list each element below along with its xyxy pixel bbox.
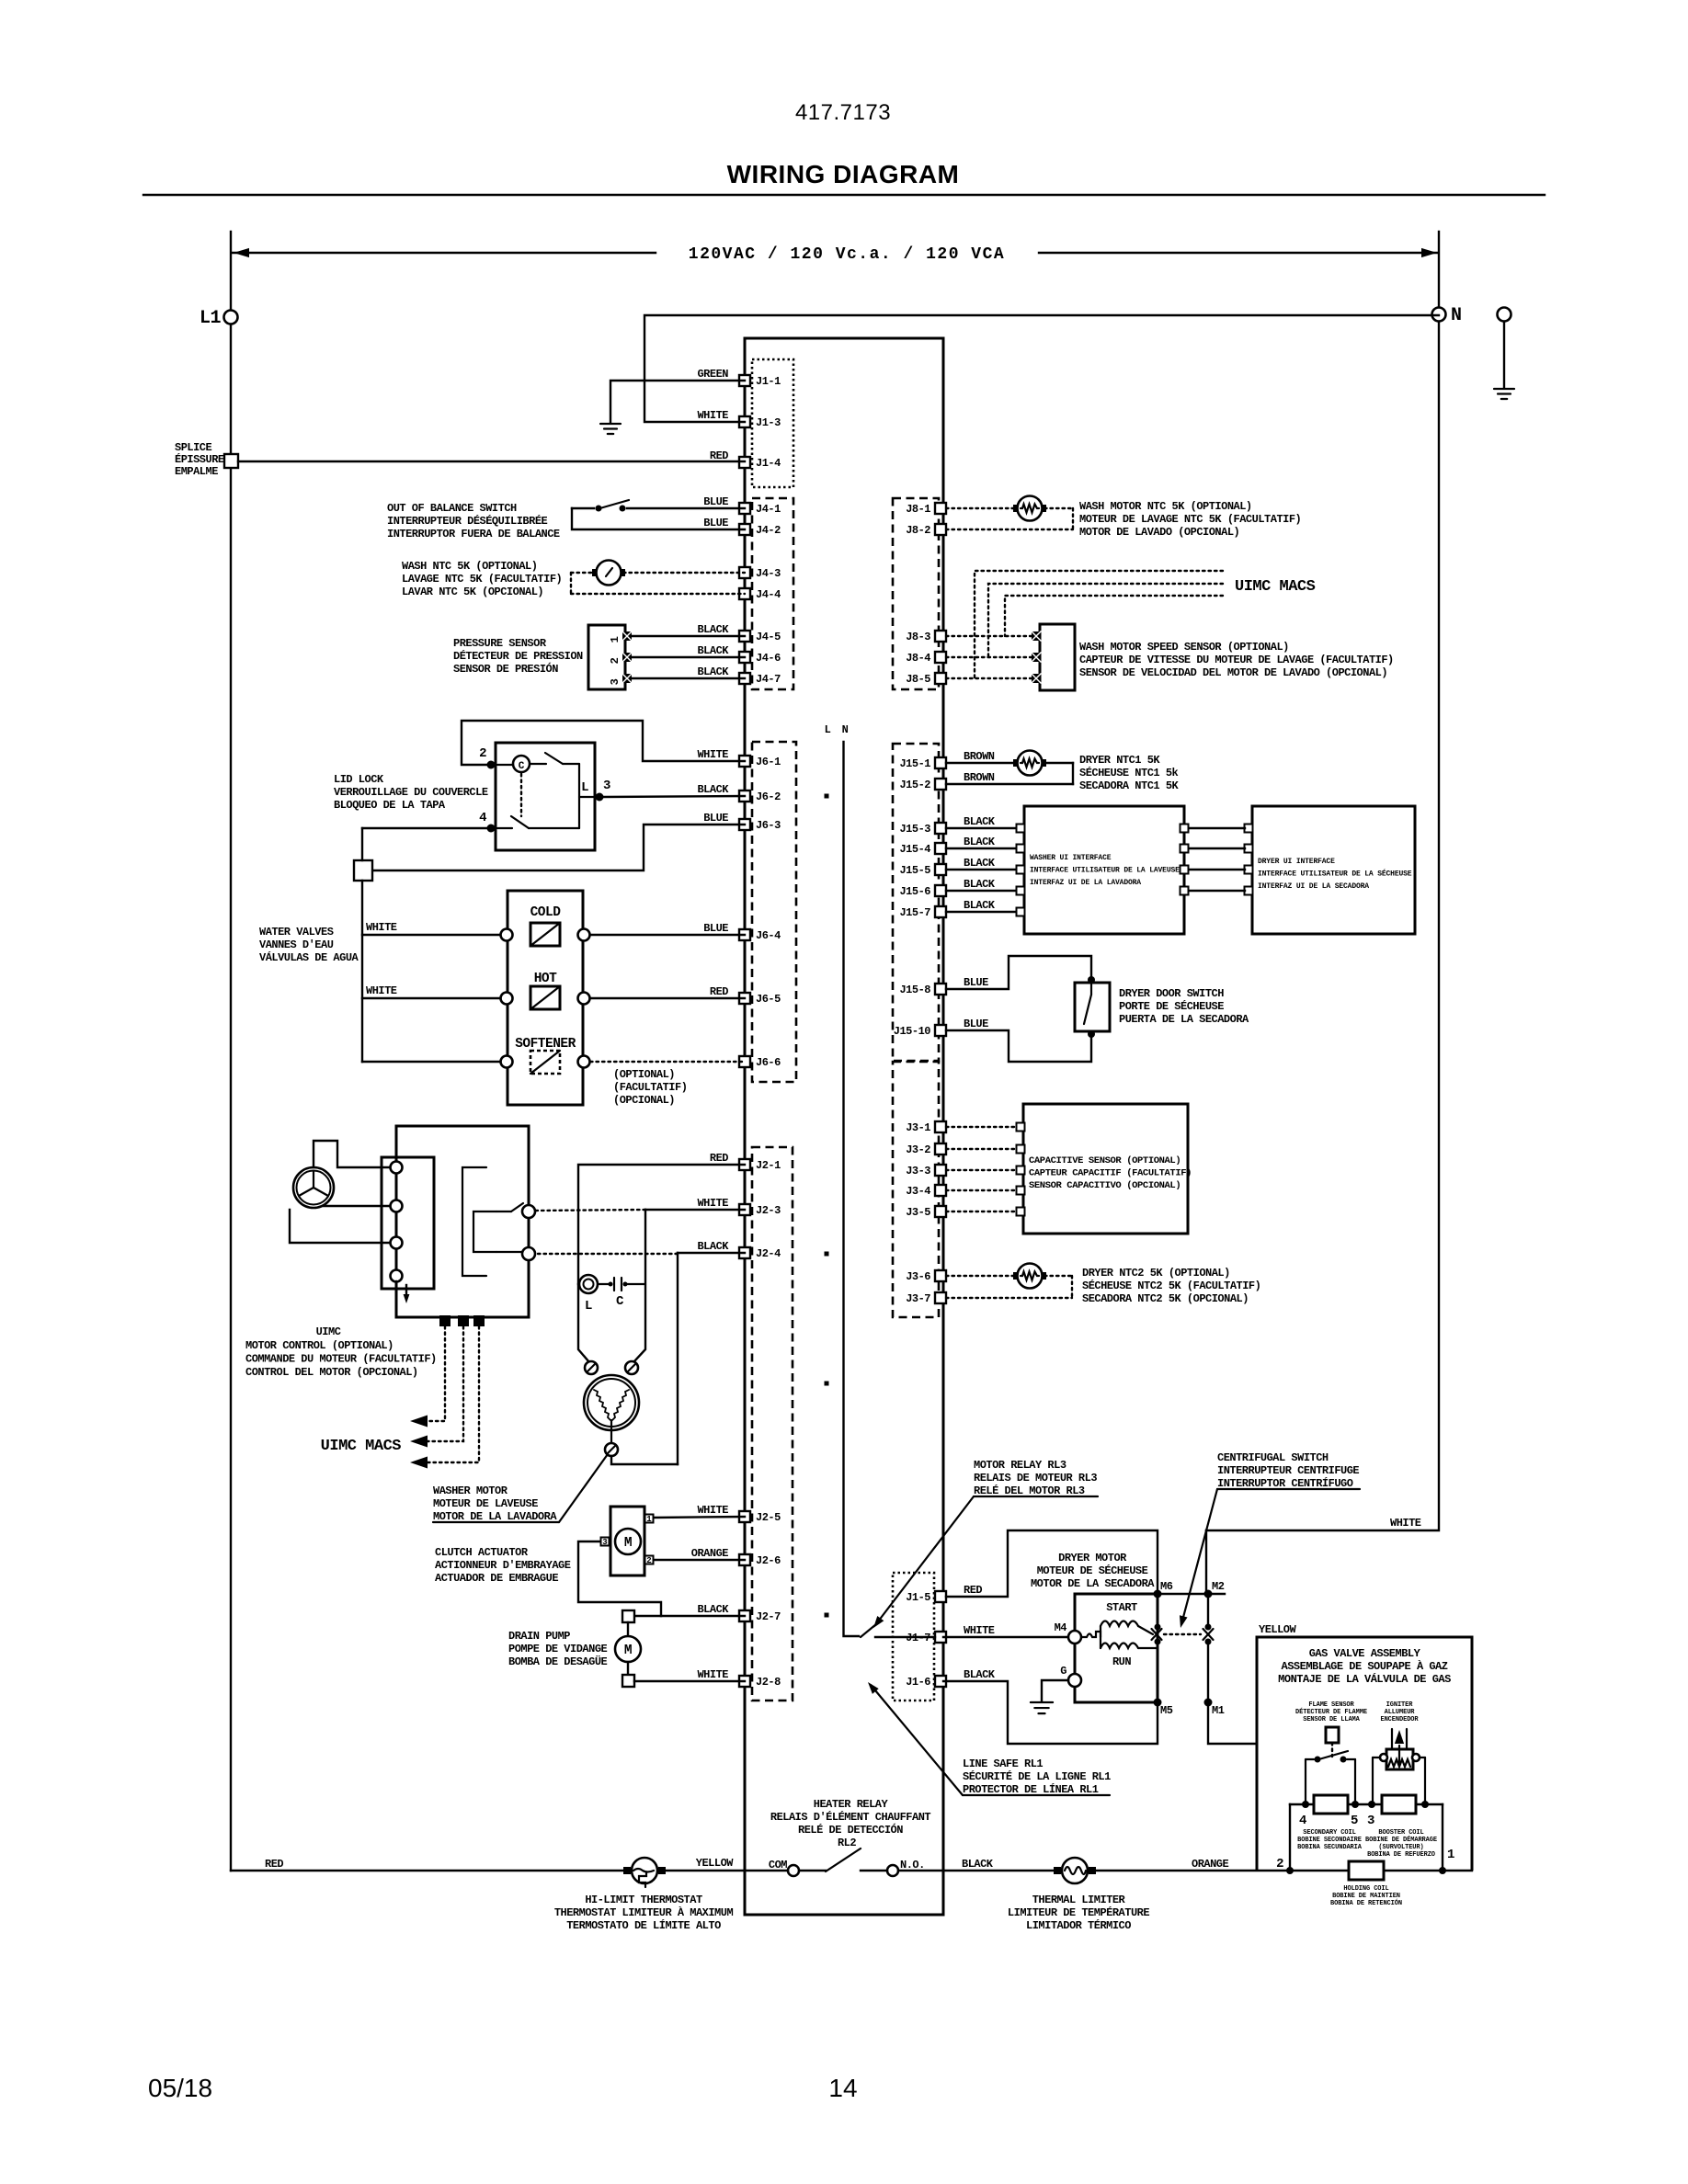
svg-text:SENSOR DE VELOCIDAD DEL MOTOR: SENSOR DE VELOCIDAD DEL MOTOR DE LAVADO … bbox=[1079, 666, 1387, 679]
terminal M6 bbox=[1154, 1590, 1162, 1598]
svg-text:YELLOW: YELLOW bbox=[1259, 1623, 1297, 1636]
lid lock terminal 3 bbox=[596, 793, 604, 802]
svg-text:INTERFAZ UI DE LA SECADORA: INTERFAZ UI DE LA SECADORA bbox=[1258, 882, 1369, 891]
thermal limiter bbox=[1054, 1867, 1061, 1874]
pin J3-3 bbox=[935, 1165, 946, 1176]
svg-text:BLACK: BLACK bbox=[962, 1858, 994, 1871]
connector J15 box bbox=[893, 744, 939, 1061]
wire dotted J8-1 bbox=[946, 507, 1015, 509]
svg-text:J3-1: J3-1 bbox=[906, 1121, 930, 1134]
svg-text:(FACULTATIF): (FACULTATIF) bbox=[613, 1081, 687, 1094]
pin J15-10 bbox=[935, 1025, 946, 1036]
lid lock mechanical link bbox=[520, 774, 522, 816]
wire dotted J4-4 bbox=[570, 573, 572, 594]
svg-text:DÉTECTEUR DE PRESSION: DÉTECTEUR DE PRESSION bbox=[453, 649, 583, 663]
start winding to contact bbox=[1138, 1626, 1153, 1634]
svg-text:PORTE DE SÉCHEUSE: PORTE DE SÉCHEUSE bbox=[1119, 999, 1224, 1013]
svg-text:M2: M2 bbox=[1212, 1580, 1225, 1593]
svg-text:RED: RED bbox=[710, 1152, 728, 1165]
terminal G bbox=[1068, 1674, 1081, 1687]
centrifugal contact right bbox=[1205, 1624, 1212, 1631]
svg-text:SÉCURITÉ DE LA LIGNE RL1: SÉCURITÉ DE LA LIGNE RL1 bbox=[963, 1769, 1111, 1783]
svg-text:DÉTECTEUR DE FLAMME: DÉTECTEUR DE FLAMME bbox=[1295, 1708, 1367, 1716]
svg-text:CONTROL DEL MOTOR (OPCIONAL): CONTROL DEL MOTOR (OPCIONAL) bbox=[245, 1366, 418, 1379]
svg-text:J3-2: J3-2 bbox=[906, 1143, 930, 1156]
svg-text:J8-4: J8-4 bbox=[906, 652, 930, 665]
wire BLUE J6-3 bbox=[372, 825, 745, 870]
wire dotted J3-2 bbox=[946, 1148, 1019, 1150]
svg-text:RED: RED bbox=[964, 1584, 982, 1597]
svg-text:J8-1: J8-1 bbox=[906, 503, 930, 516]
svg-text:BROWN: BROWN bbox=[964, 750, 995, 763]
svg-text:MOTEUR DE SÉCHEUSE: MOTEUR DE SÉCHEUSE bbox=[1037, 1564, 1148, 1577]
svg-text:(OPCIONAL): (OPCIONAL) bbox=[613, 1094, 675, 1107]
svg-text:3: 3 bbox=[1367, 1814, 1374, 1828]
svg-text:4: 4 bbox=[479, 811, 486, 825]
svg-text:RELÉ DE DETECCIÓN: RELÉ DE DETECCIÓN bbox=[798, 1823, 903, 1837]
pin J1-7 bbox=[935, 1632, 946, 1643]
pin J6-3 bbox=[739, 819, 750, 830]
connector J4 box bbox=[752, 498, 793, 689]
svg-text:J4-7: J4-7 bbox=[756, 673, 781, 686]
wire RED splice to J1-4 bbox=[238, 461, 745, 462]
svg-text:J15-4: J15-4 bbox=[899, 843, 930, 856]
pin J8-5 bbox=[935, 673, 946, 684]
heater relay RL2 bbox=[788, 1865, 799, 1876]
svg-text:C: C bbox=[616, 1294, 624, 1309]
svg-text:WASH NTC 5K (OPTIONAL): WASH NTC 5K (OPTIONAL) bbox=[402, 560, 537, 573]
wire BLACK J2-7 bbox=[633, 1615, 745, 1617]
svg-text:417.7173: 417.7173 bbox=[795, 100, 891, 125]
svg-text:DRYER NTC2 5K (OPTIONAL): DRYER NTC2 5K (OPTIONAL) bbox=[1082, 1267, 1230, 1280]
svg-text:BROWN: BROWN bbox=[964, 771, 995, 784]
svg-text:BLACK: BLACK bbox=[964, 899, 996, 912]
wire BROWN J15-2 bbox=[1044, 762, 1073, 764]
svg-text:WHITE: WHITE bbox=[1390, 1517, 1421, 1530]
svg-text:L1: L1 bbox=[200, 308, 222, 329]
wire N to board bbox=[644, 315, 1439, 422]
svg-text:BLACK: BLACK bbox=[964, 836, 996, 848]
svg-text:COMMANDE DU MOTEUR (FACULTATIF: COMMANDE DU MOTEUR (FACULTATIF) bbox=[245, 1353, 437, 1366]
svg-text:J1-5: J1-5 bbox=[906, 1591, 930, 1604]
svg-text:SENSOR DE PRESIÓN: SENSOR DE PRESIÓN bbox=[453, 662, 558, 676]
svg-text:MOTEUR DE LAVEUSE: MOTEUR DE LAVEUSE bbox=[433, 1497, 538, 1510]
svg-text:ORANGE: ORANGE bbox=[691, 1547, 729, 1560]
splice square on valve feed bbox=[354, 860, 372, 881]
svg-text:L: L bbox=[585, 1299, 592, 1314]
pressure sensor box bbox=[588, 625, 625, 689]
svg-text:ÉPISSURE: ÉPISSURE bbox=[175, 452, 224, 466]
dimension line 120VAC bbox=[232, 252, 656, 254]
pin J3-1 bbox=[935, 1121, 946, 1132]
wire BLACK J4-7 bbox=[631, 677, 745, 679]
svg-text:WIRING DIAGRAM: WIRING DIAGRAM bbox=[727, 160, 960, 188]
svg-text:FLAME SENSOR: FLAME SENSOR bbox=[1308, 1701, 1354, 1709]
svg-text:(SURVOLTEUR): (SURVOLTEUR) bbox=[1378, 1844, 1423, 1851]
svg-text:CAPACITIVE SENSOR (OPTIONAL): CAPACITIVE SENSOR (OPTIONAL) bbox=[1029, 1155, 1180, 1166]
wire WHITE to cold valve bbox=[362, 934, 500, 936]
svg-text:BOBINA SECUNDARIA: BOBINA SECUNDARIA bbox=[1297, 1844, 1363, 1851]
wire GREEN J1-1 bbox=[610, 381, 745, 422]
lid lock lower switch blade bbox=[497, 827, 512, 829]
svg-text:BLUE: BLUE bbox=[703, 812, 728, 825]
pin J2-5 bbox=[739, 1511, 750, 1522]
wire BLACK J2-4 bbox=[678, 1252, 745, 1254]
connector J1 right box bbox=[893, 1573, 934, 1701]
svg-text:1: 1 bbox=[1447, 1848, 1454, 1862]
booster coil bbox=[1382, 1795, 1416, 1814]
dryer UI interface box bbox=[1252, 806, 1415, 934]
internal N bus line bbox=[844, 742, 860, 1636]
svg-text:J8-2: J8-2 bbox=[906, 524, 930, 537]
wire BLACK J15-6 bbox=[946, 890, 1019, 892]
connector J3 box bbox=[893, 1062, 939, 1317]
UIMC output contacts bbox=[522, 1205, 535, 1218]
svg-text:START: START bbox=[1106, 1601, 1137, 1614]
pin J6-2 bbox=[739, 791, 750, 802]
terminal 4 bbox=[1302, 1801, 1309, 1808]
svg-text:INTERFACE UTILISATEUR DE LA LA: INTERFACE UTILISATEUR DE LA LAVEUSE bbox=[1030, 867, 1180, 875]
svg-text:J6-6: J6-6 bbox=[756, 1056, 781, 1069]
svg-text:J3-7: J3-7 bbox=[906, 1292, 930, 1305]
svg-text:J15-8: J15-8 bbox=[899, 984, 930, 996]
svg-text:3: 3 bbox=[603, 779, 610, 793]
svg-text:BLACK: BLACK bbox=[697, 1603, 729, 1616]
pin J3-4 bbox=[935, 1185, 946, 1196]
svg-text:J4-3: J4-3 bbox=[756, 567, 781, 580]
svg-text:M5: M5 bbox=[1160, 1704, 1173, 1717]
svg-text:UIMC MACS: UIMC MACS bbox=[1235, 578, 1316, 596]
clutch pin 3 bbox=[601, 1538, 610, 1546]
wire BLUE J6-4 bbox=[590, 934, 745, 936]
svg-text:YELLOW: YELLOW bbox=[696, 1857, 735, 1870]
wire BLUE J15-10 bbox=[946, 1030, 1091, 1062]
pin J1-1 bbox=[739, 375, 750, 386]
svg-text:WASHER MOTOR: WASHER MOTOR bbox=[433, 1484, 508, 1497]
svg-text:J8-5: J8-5 bbox=[906, 673, 930, 686]
svg-text:CAPTEUR CAPACITIF (FACULTATIF): CAPTEUR CAPACITIF (FACULTATIF) bbox=[1029, 1168, 1192, 1179]
UIMC MACS pins bbox=[439, 1315, 451, 1326]
ground symbol dryer motor bbox=[1031, 1701, 1053, 1703]
svg-text:WHITE: WHITE bbox=[366, 984, 397, 997]
svg-text:J15-3: J15-3 bbox=[899, 823, 930, 836]
ground symbol for green wire bbox=[600, 423, 621, 425]
terminal L1 bbox=[224, 311, 238, 324]
svg-text:CAPTEUR DE VITESSE DU MOTEUR D: CAPTEUR DE VITESSE DU MOTEUR DE LAVAGE (… bbox=[1079, 654, 1394, 666]
svg-text:J4-6: J4-6 bbox=[756, 652, 781, 665]
svg-text:THERMOSTAT LIMITEUR À MAXIMUM: THERMOSTAT LIMITEUR À MAXIMUM bbox=[554, 1905, 734, 1919]
svg-text:LAVAR NTC 5K (OPCIONAL): LAVAR NTC 5K (OPCIONAL) bbox=[402, 586, 543, 598]
svg-text:SECONDARY COIL: SECONDARY COIL bbox=[1303, 1829, 1355, 1837]
pin J4-6 bbox=[739, 652, 750, 663]
svg-text:M: M bbox=[624, 1536, 632, 1551]
svg-text:BOOSTER COIL: BOOSTER COIL bbox=[1378, 1829, 1423, 1837]
svg-text:J2-3: J2-3 bbox=[756, 1204, 781, 1217]
svg-text:HEATER RELAY: HEATER RELAY bbox=[814, 1798, 889, 1811]
pin J4-5 bbox=[739, 631, 750, 642]
leader to RL1 bbox=[871, 1685, 963, 1795]
svg-text:BLUE: BLUE bbox=[703, 495, 728, 508]
pin J2-8 bbox=[739, 1676, 750, 1687]
svg-text:N: N bbox=[1451, 305, 1462, 326]
svg-text:J2-1: J2-1 bbox=[756, 1159, 781, 1172]
drain pump motor bbox=[622, 1610, 634, 1622]
svg-text:DRYER NTC1 5K: DRYER NTC1 5K bbox=[1079, 754, 1160, 767]
wire dotted J3-3 bbox=[946, 1169, 1019, 1171]
pin J15-6 bbox=[935, 885, 946, 896]
lid lock upper switch blade bbox=[545, 753, 563, 764]
svg-text:J1-6: J1-6 bbox=[906, 1676, 930, 1689]
svg-text:J6-3: J6-3 bbox=[756, 819, 781, 832]
dryer motor box bbox=[1075, 1594, 1158, 1702]
terminal 3 bbox=[1368, 1801, 1375, 1808]
water valve box bbox=[508, 891, 583, 1105]
wire BLACK J1-6 to M5 bbox=[943, 1681, 1158, 1744]
holding coil bbox=[1349, 1861, 1384, 1880]
pin J6-6 bbox=[739, 1056, 750, 1067]
terminal M2 bbox=[1204, 1590, 1213, 1598]
svg-text:M4: M4 bbox=[1055, 1621, 1067, 1634]
pin J15-4 bbox=[935, 843, 946, 854]
centrifugal mechanical link bbox=[1164, 1633, 1201, 1635]
wire dotted J8-2 bbox=[1044, 507, 1073, 509]
svg-text:GAS VALVE ASSEMBLY: GAS VALVE ASSEMBLY bbox=[1309, 1647, 1421, 1660]
UI interconnect wires bbox=[1180, 825, 1189, 833]
svg-text:J15-1: J15-1 bbox=[899, 757, 930, 770]
svg-text:MOTOR DE LA SECADORA: MOTOR DE LA SECADORA bbox=[1031, 1577, 1155, 1590]
svg-text:RELAIS DE MOTEUR RL3: RELAIS DE MOTEUR RL3 bbox=[974, 1472, 1097, 1484]
svg-text:J15-10: J15-10 bbox=[894, 1025, 931, 1038]
pin J1-6 bbox=[935, 1676, 946, 1687]
pin J8-2 bbox=[935, 524, 946, 535]
svg-text:J4-5: J4-5 bbox=[756, 631, 781, 643]
washer motor common wire bbox=[611, 1456, 678, 1464]
lid lock terminal 2 bbox=[487, 761, 496, 769]
clutch pin 2 bbox=[645, 1556, 654, 1564]
svg-text:RED: RED bbox=[710, 985, 728, 998]
svg-text:WASHER UI INTERFACE: WASHER UI INTERFACE bbox=[1030, 854, 1112, 862]
UIMC connector strip bbox=[382, 1157, 434, 1289]
wire BLUE J4-2 bbox=[572, 508, 745, 529]
svg-text:RELAIS D'ÉLÉMENT CHAUFFANT: RELAIS D'ÉLÉMENT CHAUFFANT bbox=[770, 1810, 931, 1824]
wire pulley to contact 2 bbox=[324, 1205, 390, 1207]
svg-text:WASH MOTOR NTC 5K (OPTIONAL): WASH MOTOR NTC 5K (OPTIONAL) bbox=[1079, 500, 1252, 513]
svg-text:TERMOSTATO DE LÍMITE ALTO: TERMOSTATO DE LÍMITE ALTO bbox=[566, 1918, 721, 1932]
pin J15-2 bbox=[935, 779, 946, 790]
svg-text:LIMITADOR TÉRMICO: LIMITADOR TÉRMICO bbox=[1026, 1918, 1131, 1932]
horizontal rule under title bbox=[143, 194, 1545, 196]
svg-text:LIMITEUR DE TEMPÉRATURE: LIMITEUR DE TEMPÉRATURE bbox=[1008, 1905, 1149, 1919]
wash motor NTC thermistor bbox=[1013, 505, 1021, 512]
svg-text:INTERFAZ UI DE LA LAVADORA: INTERFAZ UI DE LA LAVADORA bbox=[1030, 879, 1141, 887]
wire M1 to gas valve bbox=[1208, 1702, 1257, 1744]
UIMC internal switch bbox=[496, 1211, 511, 1212]
hi-limit thermostat bbox=[623, 1867, 631, 1874]
pin J3-5 bbox=[935, 1206, 946, 1217]
svg-text:VÁLVULAS DE AGUA: VÁLVULAS DE AGUA bbox=[259, 950, 359, 964]
dryer door switch box bbox=[1075, 983, 1110, 1031]
centrifugal contact left bbox=[1155, 1624, 1161, 1631]
lid lock box bbox=[496, 743, 595, 850]
svg-text:UIMC MACS: UIMC MACS bbox=[321, 1438, 402, 1455]
terminal M4 bbox=[1068, 1631, 1081, 1644]
secondary coil bbox=[1314, 1795, 1348, 1814]
svg-text:J3-5: J3-5 bbox=[906, 1206, 930, 1219]
svg-text:BOBINE DE DÉMARRAGE: BOBINE DE DÉMARRAGE bbox=[1365, 1836, 1437, 1844]
svg-text:BOMBA DE DESAGÜE: BOMBA DE DESAGÜE bbox=[508, 1654, 608, 1668]
lid lock internal bus bbox=[578, 764, 580, 828]
wire dotted J3-5 bbox=[946, 1211, 1019, 1212]
wire BROWN J15-1 bbox=[946, 762, 1015, 764]
svg-text:ORANGE: ORANGE bbox=[1192, 1858, 1229, 1871]
svg-text:L: L bbox=[825, 723, 831, 736]
pin J4-1 bbox=[739, 503, 750, 514]
svg-text:(OPTIONAL): (OPTIONAL) bbox=[613, 1068, 675, 1081]
svg-text:14: 14 bbox=[828, 2074, 857, 2102]
wire WHITE J1-7 to M4 bbox=[943, 1636, 1068, 1638]
svg-text:J15-2: J15-2 bbox=[899, 779, 930, 791]
dryer NTC2 thermistor bbox=[1013, 1272, 1021, 1280]
pin J4-7 bbox=[739, 673, 750, 684]
terminal 2 riser bbox=[1289, 1804, 1291, 1871]
svg-text:INTERRUPTEUR DÉSÉQUILIBRÉE: INTERRUPTEUR DÉSÉQUILIBRÉE bbox=[387, 514, 548, 528]
wire dotted J6-6 bbox=[590, 1061, 745, 1063]
washer motor pulley bbox=[293, 1167, 334, 1208]
svg-text:UIMC: UIMC bbox=[316, 1325, 341, 1338]
svg-text:VERROUILLAGE DU COUVERCLE: VERROUILLAGE DU COUVERCLE bbox=[334, 786, 488, 799]
svg-text:BOBINA DE REFUERZO: BOBINA DE REFUERZO bbox=[1367, 1851, 1435, 1859]
pin J4-4 bbox=[739, 588, 750, 599]
wire WHITE J2-8 bbox=[634, 1680, 745, 1682]
flame sensor switch bbox=[1315, 1757, 1321, 1763]
svg-text:C: C bbox=[519, 761, 525, 772]
UIMC MACS dotted lines right bbox=[975, 571, 1223, 678]
svg-text:N: N bbox=[842, 723, 849, 736]
connector J2 box bbox=[752, 1147, 793, 1701]
wire BLUE J15-8 bbox=[946, 956, 1091, 989]
wire dotted J3-1 bbox=[946, 1126, 1019, 1128]
UIMC strip contacts bbox=[391, 1162, 403, 1174]
svg-text:BLACK: BLACK bbox=[697, 783, 729, 796]
svg-text:BLACK: BLACK bbox=[964, 878, 996, 891]
svg-text:RUN: RUN bbox=[1112, 1655, 1131, 1668]
svg-text:INTERRUPTOR FUERA DE BALANCE: INTERRUPTOR FUERA DE BALANCE bbox=[387, 528, 560, 540]
terminal M1 bbox=[1204, 1699, 1213, 1707]
svg-text:G: G bbox=[1060, 1665, 1066, 1678]
svg-text:MOTOR DE LAVADO (OPCIONAL): MOTOR DE LAVADO (OPCIONAL) bbox=[1079, 526, 1239, 539]
control board outline bbox=[745, 338, 943, 1915]
terminal 5 bbox=[1352, 1801, 1359, 1808]
wire WHITE to hot valve bbox=[362, 997, 500, 999]
svg-text:VANNES D'EAU: VANNES D'EAU bbox=[259, 938, 334, 951]
wire BLUE J4-1 bbox=[572, 507, 594, 509]
wire RED J6-5 bbox=[590, 997, 745, 999]
svg-text:3: 3 bbox=[609, 678, 622, 685]
valve feed bus bbox=[361, 828, 363, 860]
wire dotted J3-4 bbox=[946, 1189, 1019, 1191]
ground symbol top right bbox=[1494, 388, 1514, 390]
svg-text:1: 1 bbox=[646, 1515, 652, 1524]
capacitive sensor box bbox=[1023, 1104, 1188, 1234]
svg-text:5: 5 bbox=[1351, 1814, 1358, 1828]
svg-text:WASH MOTOR SPEED SENSOR (OPTIO: WASH MOTOR SPEED SENSOR (OPTIONAL) bbox=[1079, 641, 1289, 654]
svg-text:M: M bbox=[624, 1644, 632, 1658]
UIMC internal bracket bbox=[462, 1167, 486, 1276]
svg-text:MOTEUR DE LAVAGE NTC 5K (FACUL: MOTEUR DE LAVAGE NTC 5K (FACULTATIF) bbox=[1079, 513, 1301, 526]
wire WHITE J6-1 bbox=[462, 721, 745, 765]
svg-text:J8-3: J8-3 bbox=[906, 631, 930, 643]
wire pulley to contact 3 bbox=[290, 1210, 390, 1243]
svg-text:COLD: COLD bbox=[530, 905, 562, 920]
wire WHITE N rail to M2 bbox=[1205, 1530, 1207, 1594]
run winding to bus bbox=[1138, 1647, 1158, 1649]
svg-text:J2-6: J2-6 bbox=[756, 1554, 781, 1567]
svg-text:HOLDING COIL: HOLDING COIL bbox=[1343, 1885, 1388, 1893]
pin J1-3 bbox=[739, 416, 750, 427]
svg-text:BLACK: BLACK bbox=[964, 815, 996, 828]
pin J6-4 bbox=[739, 929, 750, 940]
wire BLACK J4-5 bbox=[631, 635, 745, 637]
svg-text:DRAIN PUMP: DRAIN PUMP bbox=[508, 1630, 570, 1643]
svg-text:BLACK: BLACK bbox=[964, 857, 996, 870]
svg-text:SÉCHEUSE NTC2 5K (FACULTATIF): SÉCHEUSE NTC2 5K (FACULTATIF) bbox=[1082, 1279, 1260, 1292]
wash motor speed sensor box bbox=[1040, 624, 1075, 690]
svg-text:SECADORA NTC1 5K: SECADORA NTC1 5K bbox=[1079, 779, 1180, 792]
svg-text:BLOQUEO DE LA TAPA: BLOQUEO DE LA TAPA bbox=[334, 799, 446, 812]
wire G to ground bbox=[1042, 1680, 1068, 1701]
wire dotted J4-3 bbox=[571, 572, 594, 574]
terminal M5 bbox=[1154, 1699, 1162, 1707]
svg-text:PROTECTOR DE LÍNEA RL1: PROTECTOR DE LÍNEA RL1 bbox=[963, 1782, 1099, 1796]
svg-text:J3-6: J3-6 bbox=[906, 1270, 930, 1283]
svg-text:J15-5: J15-5 bbox=[899, 864, 930, 877]
flame sensor bbox=[1326, 1727, 1339, 1743]
svg-text:4: 4 bbox=[1299, 1814, 1306, 1828]
bottom power rail bbox=[231, 1870, 632, 1871]
svg-text:J4-2: J4-2 bbox=[756, 524, 781, 537]
wire BLACK J15-7 bbox=[946, 911, 1019, 913]
svg-text:POMPE DE VIDANGE: POMPE DE VIDANGE bbox=[508, 1643, 608, 1655]
connector J6 box bbox=[752, 742, 796, 1082]
ground terminal at top right bbox=[1498, 308, 1511, 322]
M2-M1 bus bbox=[1207, 1594, 1209, 1627]
start capacitor branch bbox=[578, 1283, 579, 1285]
wire dotted J8-4 bbox=[946, 656, 1032, 658]
svg-text:WHITE: WHITE bbox=[697, 1668, 728, 1681]
svg-text:BLACK: BLACK bbox=[697, 623, 729, 636]
svg-text:INTERRUPTEUR CENTRIFUGE: INTERRUPTEUR CENTRIFUGE bbox=[1217, 1464, 1359, 1477]
out of balance switch contacts bbox=[596, 506, 602, 512]
svg-text:OUT OF BALANCE SWITCH: OUT OF BALANCE SWITCH bbox=[387, 502, 517, 515]
svg-text:BOBINE SECONDAIRE: BOBINE SECONDAIRE bbox=[1297, 1837, 1362, 1844]
svg-text:SPLICE: SPLICE bbox=[175, 441, 212, 454]
svg-text:GREEN: GREEN bbox=[697, 368, 728, 381]
pin J15-8 bbox=[935, 984, 946, 995]
pin J2-4 bbox=[739, 1247, 750, 1258]
lid lock coil C bbox=[513, 756, 530, 772]
svg-text:IGNITER: IGNITER bbox=[1386, 1701, 1414, 1709]
svg-text:PRESSURE SENSOR: PRESSURE SENSOR bbox=[453, 637, 547, 650]
washer motor terminals bbox=[585, 1361, 598, 1374]
svg-text:2: 2 bbox=[1276, 1857, 1283, 1871]
start and run windings bbox=[1081, 1632, 1101, 1637]
svg-text:DRYER MOTOR: DRYER MOTOR bbox=[1058, 1552, 1127, 1564]
gas valve assembly box bbox=[1257, 1637, 1472, 1871]
svg-text:THERMAL LIMITER: THERMAL LIMITER bbox=[1032, 1894, 1126, 1906]
svg-text:BLACK: BLACK bbox=[964, 1668, 996, 1681]
svg-text:BLACK: BLACK bbox=[697, 665, 729, 678]
pin J3-7 bbox=[935, 1292, 946, 1303]
